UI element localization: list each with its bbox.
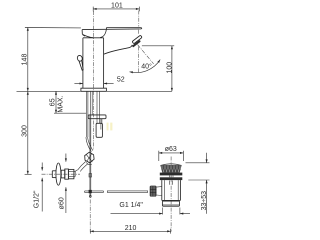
svg-text:G1/2": G1/2" <box>34 190 41 208</box>
dimension 300 (left lower) <box>21 91 31 174</box>
drain centerline <box>170 157 172 232</box>
dimension 101 (top) <box>93 2 139 26</box>
svg-text:65: 65 <box>50 98 57 106</box>
drain body <box>162 180 181 200</box>
dimension 52 (faucet body width) <box>74 76 124 84</box>
drain plug cap <box>161 164 182 166</box>
watermark yellow marks <box>107 123 113 131</box>
wall fitting centerline <box>42 173 81 175</box>
pipe from union to wall elbow <box>75 161 88 172</box>
wall fitting: body blocks and hex <box>61 169 75 179</box>
supply S-bend to union <box>86 137 93 152</box>
svg-text:210: 210 <box>125 225 137 232</box>
spout top line and fillet <box>100 28 142 38</box>
dimension G1 1/4" <box>111 202 191 215</box>
faucet centerline <box>93 11 95 150</box>
spout underside curve <box>104 45 133 54</box>
drain body center slot <box>170 181 173 185</box>
dimension ø60 <box>59 154 67 214</box>
pop-up horizontal rod <box>84 191 147 193</box>
drain thread box <box>162 201 179 206</box>
threaded shank (middle pair) <box>90 91 92 115</box>
deck / mounting surface line <box>17 90 172 92</box>
union nut (angled hex) <box>85 152 94 165</box>
pull rod knob behind faucet <box>77 55 84 71</box>
svg-text:ø63: ø63 <box>165 146 177 153</box>
gap row with center marks <box>169 175 173 177</box>
dimension 210 (bottom) <box>90 225 170 234</box>
aerator face (dark bar) <box>132 40 141 48</box>
faucet handle <box>82 29 140 38</box>
svg-text:52: 52 <box>117 76 125 83</box>
svg-text:MAX.: MAX. <box>57 95 64 112</box>
svg-text:100: 100 <box>166 62 173 74</box>
drain trumpet flange (hatched) <box>161 165 182 172</box>
svg-text:101: 101 <box>111 2 123 9</box>
drain rosette band 2 <box>160 177 183 180</box>
spout outlet stub (rotated outline bar) <box>132 35 142 44</box>
wall fitting: escutcheon flange <box>56 163 61 185</box>
supply hose 2 (right pair) <box>97 91 99 123</box>
dimension 33÷53 <box>186 153 210 214</box>
hose end cylinder <box>96 123 102 137</box>
dimension G1/2" <box>34 163 44 212</box>
dimension 100 (right of spout) <box>142 46 174 92</box>
rod clamp at crossing <box>89 190 92 193</box>
aerator centerline (dashed vertical above outlet) <box>138 30 140 35</box>
supply hose 1 (left pair) <box>86 91 88 137</box>
faucet body <box>83 38 104 88</box>
drain rosette band 1 <box>160 173 183 176</box>
mounting nut <box>88 115 106 130</box>
wall fitting: pipe stub left (G1/2 thread) <box>52 171 56 178</box>
svg-text:300: 300 <box>21 125 28 137</box>
rod centerline (below, to 210 dim) <box>89 200 91 232</box>
pull rod (vertical, continues down) <box>89 115 92 197</box>
drain: dimension ø63 <box>159 146 184 161</box>
knob stem to body <box>157 187 162 196</box>
drain knurled knob <box>150 186 157 197</box>
svg-text:ø60: ø60 <box>59 197 66 209</box>
dimension 65 MAX <box>50 91 87 113</box>
dimension 40 deg with arc <box>130 45 161 74</box>
faucet base plate <box>81 88 107 91</box>
dimension 148 (left upper) <box>22 27 81 91</box>
svg-text:G1 1/4": G1 1/4" <box>119 202 143 209</box>
